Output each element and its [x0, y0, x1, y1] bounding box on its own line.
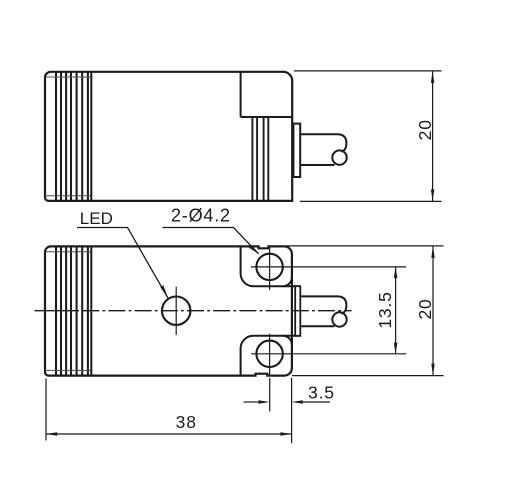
bottom view: pin end ball — [332, 312, 346, 326]
bottom view: cap rib lines — [56, 247, 88, 375]
bottom view: body outline with notches — [45, 246, 292, 375]
upper hole crosshair vertical — [269, 247, 271, 290]
dim 38: left extension line — [45, 379, 47, 441]
bottom view dim 20: top extension line — [286, 245, 444, 247]
2-Ø4.2 leader arrowhead — [249, 245, 259, 254]
lower hole crosshair vertical — [269, 334, 271, 376]
svg-text:38: 38 — [176, 412, 197, 432]
dim 3.5: left arrow — [259, 400, 270, 404]
svg-text:20: 20 — [415, 298, 435, 319]
dim 38 and 3.5: right extension line — [291, 378, 293, 444]
top view: connector block step line — [241, 116, 293, 118]
upper hole crosshair horizontal — [251, 266, 289, 268]
top view dim 20: lower arrow — [431, 189, 434, 201]
top view: cap right edge — [90, 72, 92, 200]
dim 3.5: left arrow line — [244, 401, 259, 403]
dim 3.5: left extension line (hole center) — [269, 378, 271, 412]
bottom view: horizontal centerline (dash-dot run) — [82, 310, 351, 312]
dim 3.5: right arrow line — [303, 401, 330, 403]
bottom view dim 20: dimension line — [432, 246, 434, 376]
dim 13.5: upper extension line — [289, 266, 407, 268]
dim 38: right arrow — [280, 432, 291, 436]
top view: connector block front edge — [240, 72, 242, 117]
bottom view: upper boss right fillet — [283, 277, 292, 286]
bottom view: cap groove root line upper — [46, 251, 92, 253]
top view: rear rib lines — [252, 117, 268, 201]
top view: body outline with ribbed cap — [45, 72, 292, 201]
bottom view: lower boss right fillet — [283, 336, 292, 345]
bottom view dim 20: upper arrow — [431, 246, 434, 258]
bottom view: pin bottom line — [300, 325, 334, 327]
top view: connector tab — [293, 124, 300, 177]
top view: pin top contour — [300, 134, 346, 151]
bottom view: upper boss contour — [241, 246, 301, 286]
bottom view: cap groove root line lower — [46, 369, 92, 371]
top view: pin bottom line — [300, 164, 334, 166]
dim 38: left arrow — [46, 432, 57, 436]
svg-text:13.5: 13.5 — [375, 291, 395, 328]
top view dim 20: bottom extension line — [300, 200, 442, 202]
2-Ø4.2 leader line — [163, 228, 259, 254]
top view: cap rib lines — [56, 72, 88, 200]
bottom view dim 20: bottom extension line — [292, 375, 444, 377]
svg-text:LED: LED — [80, 209, 113, 228]
bottom view: cap right edge — [90, 247, 92, 375]
dim 3.5: right arrow — [292, 400, 303, 404]
LED leader line — [77, 228, 168, 299]
dim 38: dimension line — [46, 433, 292, 435]
bottom view: pin top contour — [300, 296, 346, 313]
svg-text:2-Ø4.2: 2-Ø4.2 — [171, 205, 231, 225]
top view dim 20: upper arrow — [431, 71, 434, 83]
LED leader arrowhead — [160, 285, 168, 298]
svg-text:3.5: 3.5 — [308, 383, 335, 403]
svg-text:20: 20 — [415, 119, 435, 140]
dim 13.5: upper arrow — [394, 267, 398, 278]
bottom view: connector tab — [295, 286, 300, 336]
top view: cap groove root line lower — [46, 195, 92, 197]
bottom view: horizontal centerline (long lead dash) — [35, 310, 80, 312]
dim 13.5: lower arrow — [394, 343, 398, 354]
bottom view dim 20: lower arrow — [431, 364, 434, 376]
top view: pin end ball — [332, 150, 346, 164]
top view dim 20: top extension line — [294, 70, 442, 72]
top view dim 20: dimension line — [432, 71, 434, 202]
LED crosshair vertical — [175, 287, 177, 335]
mounting hole upper — [256, 254, 282, 280]
dim 13.5: lower extension line — [289, 353, 407, 355]
LED window circle — [162, 297, 190, 325]
dim 13.5: dimension line — [395, 267, 397, 354]
bottom view: lower boss contour — [241, 336, 301, 376]
top view: cap groove root line upper — [46, 76, 92, 78]
lower hole crosshair horizontal — [251, 353, 289, 355]
mounting hole lower — [256, 341, 282, 367]
